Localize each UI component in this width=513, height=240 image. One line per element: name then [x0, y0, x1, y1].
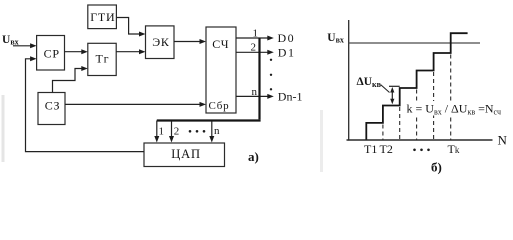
svg-text:1: 1	[159, 126, 165, 138]
start circuit SZ box	[38, 93, 65, 125]
dashed riser 4	[416, 90, 418, 140]
bus drop n	[211, 122, 213, 139]
wire GTI to EK	[116, 18, 141, 35]
svg-text:T2: T2	[380, 142, 393, 156]
svg-text:1: 1	[253, 28, 259, 40]
arrowhead GTI-EK	[139, 32, 146, 37]
scan smudge mid	[320, 110, 323, 172]
svg-text:k = Uвх / ΔUкв =Nсч: k = Uвх / ΔUкв =Nсч	[407, 102, 501, 117]
dots drops	[189, 130, 206, 133]
arrowhead D1	[267, 50, 274, 55]
arrowhead feedback	[30, 56, 36, 61]
wire SZ to Tg stepped	[53, 69, 84, 93]
x axis	[347, 139, 493, 141]
svg-text:Dn-1: Dn-1	[278, 90, 303, 104]
arrowhead dropn	[209, 136, 214, 143]
arrowhead EK-SCh	[200, 39, 207, 44]
arrowhead D0	[267, 36, 274, 41]
svg-text:n: n	[252, 86, 258, 98]
delta U double arrow	[391, 90, 393, 102]
DAC TsAP box	[144, 143, 225, 167]
svg-text:СЧ: СЧ	[212, 37, 229, 51]
dashed riser T2	[382, 125, 384, 140]
svg-text:ГТИ: ГТИ	[90, 10, 115, 24]
svg-text:а): а)	[248, 149, 259, 164]
wire output 2	[236, 51, 269, 53]
svg-text:T1: T1	[364, 142, 377, 156]
arrowhead CP-Tg	[81, 49, 88, 54]
wire Tg to EK	[116, 51, 141, 53]
wire CP to Tg	[65, 51, 84, 53]
arrowhead Dn-1	[267, 94, 274, 99]
svg-text:Tk: Tk	[448, 142, 460, 156]
svg-text:Uвх: Uвх	[327, 32, 344, 45]
bus vertical	[258, 38, 260, 119]
arrowhead Tg-EK	[139, 49, 146, 54]
svg-text:Сбр: Сбр	[209, 100, 230, 112]
scan smudge left	[2, 95, 5, 162]
wire SZ to Sbr	[65, 103, 202, 105]
svg-text:D1: D1	[278, 45, 296, 59]
leader line deltaU	[381, 85, 390, 93]
bus drop 1	[156, 121, 158, 139]
dashed riser 3	[399, 107, 401, 140]
staircase	[366, 33, 467, 139]
svg-text:б): б)	[431, 159, 442, 174]
wire feedback DAC to CP	[26, 59, 145, 152]
comparator CP box	[37, 36, 65, 71]
clock generator GTI box	[88, 5, 117, 29]
dots T axis	[413, 149, 430, 152]
svg-text:n: n	[214, 125, 220, 137]
formula background	[404, 101, 508, 116]
dots column D outputs	[270, 59, 272, 91]
delta U tick	[389, 85, 400, 87]
arrowhead drop2	[169, 136, 174, 143]
arrowhead Uvx	[30, 43, 36, 48]
counter SCh box	[206, 27, 236, 113]
svg-text:ЭК: ЭК	[152, 35, 170, 49]
svg-text:Uвх: Uвх	[2, 34, 19, 47]
arrowhead SZ-Sbr	[200, 102, 207, 107]
wire output 1	[236, 37, 269, 39]
wire Uvx input	[13, 45, 32, 47]
electronic key EK box	[146, 26, 175, 59]
svg-text:СЗ: СЗ	[45, 98, 61, 112]
trigger Tg box	[88, 43, 116, 75]
svg-text:СР: СР	[44, 47, 60, 61]
y axis	[348, 20, 350, 141]
svg-text:2: 2	[174, 126, 180, 138]
bus horizontal	[157, 119, 261, 121]
svg-text:Тг: Тг	[96, 52, 110, 66]
wire output n	[236, 95, 269, 97]
wire EK to SCh	[174, 41, 202, 43]
arrowhead SZ-Tg	[81, 66, 88, 71]
Uvx level line	[349, 42, 480, 44]
svg-text:2: 2	[251, 42, 257, 54]
arrowhead drop1	[154, 136, 159, 143]
bus drop 2	[171, 122, 173, 139]
svg-text:ЦАП: ЦАП	[171, 147, 200, 161]
dashed riser Tk	[450, 55, 452, 140]
svg-text:ΔUкв: ΔUкв	[357, 76, 382, 89]
dashed riser 5	[433, 72, 435, 140]
svg-text:D0: D0	[278, 31, 296, 45]
svg-text:N: N	[498, 133, 508, 148]
